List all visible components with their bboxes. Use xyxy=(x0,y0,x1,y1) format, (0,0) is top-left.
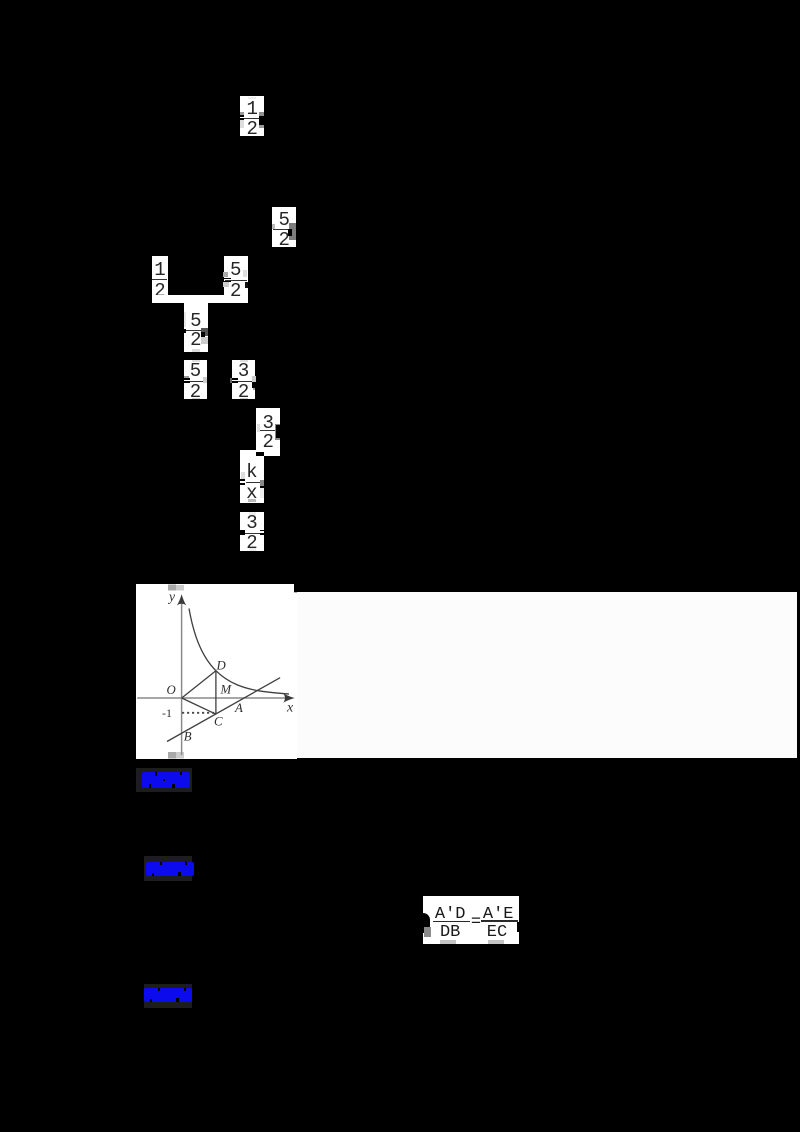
O to D xyxy=(182,670,216,697)
line B to A extended xyxy=(167,677,280,741)
fraction 1/2 (line 1) xyxy=(240,96,264,136)
svg-text:y: y xyxy=(167,589,175,604)
dotted -1 line xyxy=(182,711,216,713)
graph image box xyxy=(136,584,297,759)
fraction 5/2 (line 3 right) xyxy=(224,256,248,304)
svg-text:x: x xyxy=(286,700,294,715)
svg-text:M: M xyxy=(220,682,233,696)
svg-text:A: A xyxy=(234,701,243,715)
D to C vertical xyxy=(215,670,217,714)
fraction 3/2 (line 6) xyxy=(256,408,280,456)
fraction x=3/2 (line 8) xyxy=(240,512,264,552)
white band right of graph xyxy=(294,592,797,759)
hyperbola xyxy=(189,608,289,694)
fraction 5/2, (line 4, below strip) xyxy=(184,303,208,352)
white highlight strip under line 3 xyxy=(152,295,248,303)
x-axis xyxy=(137,697,291,699)
svg-text:-1: -1 xyxy=(162,705,172,719)
gray tabs xyxy=(168,584,176,590)
line 3: 1/2 ... = 5/2, with white strip under xyxy=(152,256,168,304)
formula A'D/DB = A'E/EC xyxy=(423,896,519,944)
svg-text:D: D xyxy=(216,658,227,672)
O to C xyxy=(182,698,216,714)
fraction 5/2, (line 2) xyxy=(272,207,296,247)
blue label 1 xyxy=(136,768,193,792)
blue label 2 xyxy=(144,856,193,881)
svg-text:O: O xyxy=(167,683,176,697)
svg-text:C: C xyxy=(214,714,223,728)
y-axis xyxy=(181,597,183,755)
fraction k/x (line 7) xyxy=(240,450,257,457)
line 5: =5/2 ... =3/2, xyxy=(184,360,207,399)
svg-text:B: B xyxy=(184,729,192,743)
blue label 3 xyxy=(144,984,193,1008)
